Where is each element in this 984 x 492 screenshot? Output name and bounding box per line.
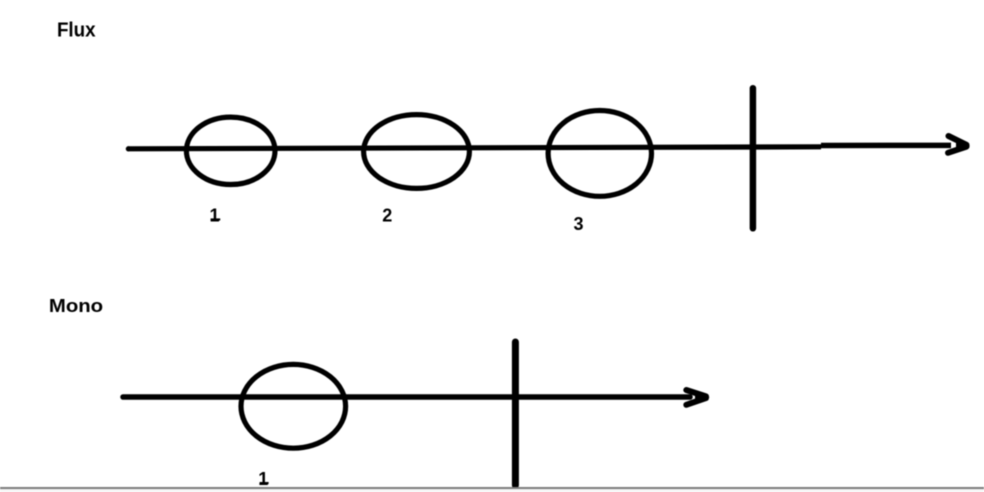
bottom grey separator line [0, 487, 984, 489]
vertical bar on Mono axis [512, 342, 519, 485]
ellipse 2 on Flux axis [364, 115, 470, 189]
wire: Mono timeline axis [123, 394, 690, 400]
svg-text:Flux: Flux [57, 19, 96, 42]
wire: Flux timeline axis, left segment [126, 146, 131, 151]
svg-text:Mono: Mono [49, 296, 103, 317]
strip below separator [0, 489, 984, 492]
vertical bar on Flux axis [750, 88, 757, 228]
ellipse 1 on Mono axis [241, 364, 346, 448]
ellipse 1 on Flux axis [186, 117, 275, 184]
svg-text:1: 1 [258, 469, 268, 489]
svg-text:3: 3 [574, 214, 584, 234]
wire: Flux timeline axis, right segment [821, 143, 951, 149]
arrowhead of Flux axis [948, 136, 970, 153]
arrowhead of Mono axis [686, 390, 709, 405]
ellipse 3 on Flux axis [548, 110, 651, 196]
svg-text:1: 1 [210, 205, 220, 225]
svg-text:2: 2 [382, 205, 392, 225]
